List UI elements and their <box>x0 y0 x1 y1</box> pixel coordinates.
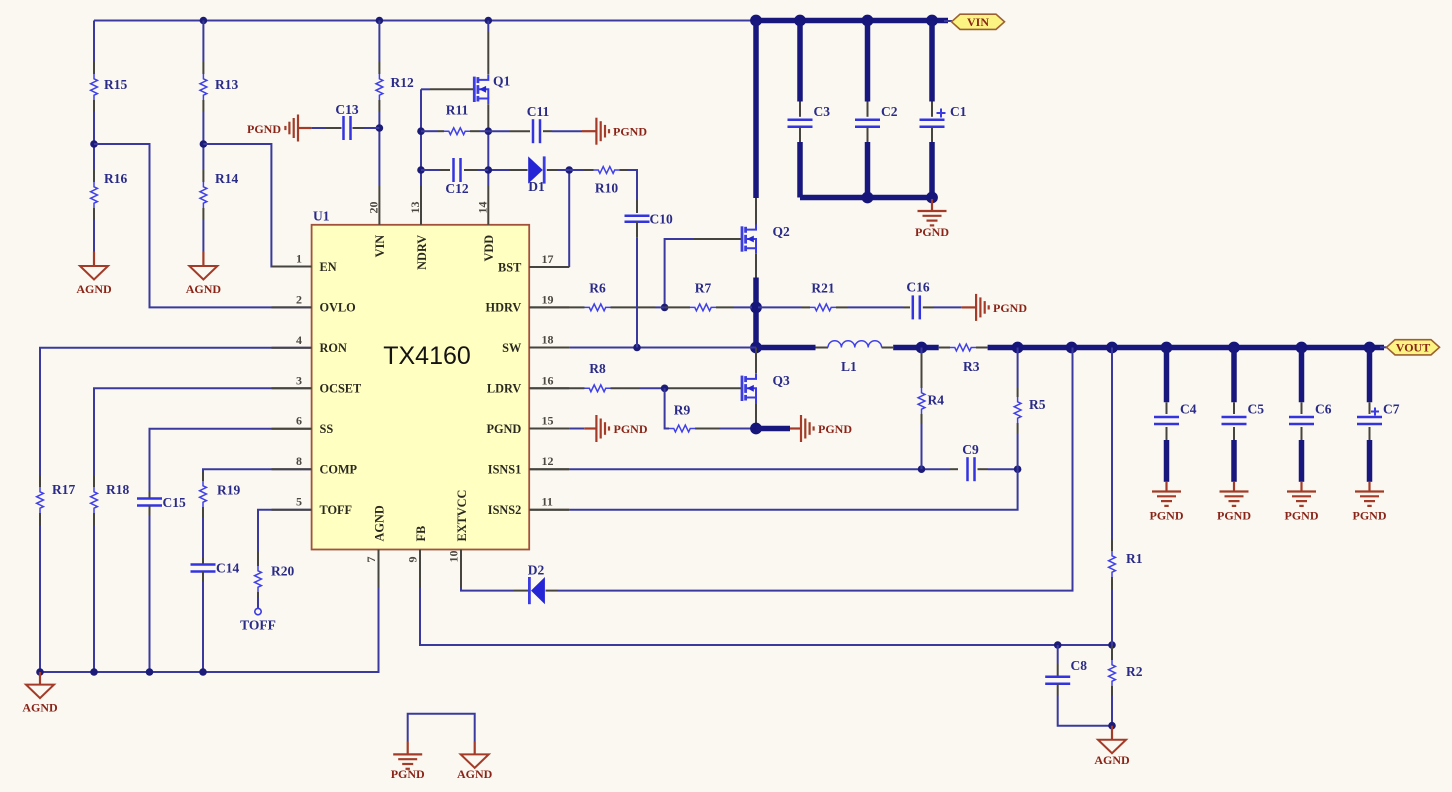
svg-text:R4: R4 <box>928 393 945 408</box>
svg-text:R11: R11 <box>446 103 469 118</box>
wire: LDRV line pin 16 <box>529 387 584 389</box>
wire: ISNS2 line pin 11 <box>529 469 1017 510</box>
svg-text:ISNS1: ISNS1 <box>488 463 522 477</box>
resistor R2 <box>1108 645 1143 730</box>
resistor R15 <box>91 21 128 145</box>
svg-text:7: 7 <box>364 557 378 563</box>
svg-text:R9: R9 <box>674 402 691 417</box>
svg-text:PGND: PGND <box>247 122 281 136</box>
wire: HDRV line pin 19 <box>529 306 584 308</box>
resistor R1 <box>1109 348 1143 646</box>
svg-text:TOFF: TOFF <box>240 618 276 633</box>
pin 1 EN <box>272 252 337 274</box>
svg-text:AGND: AGND <box>76 282 112 296</box>
svg-text:OCSET: OCSET <box>320 382 362 396</box>
svg-text:AGND: AGND <box>22 701 58 715</box>
pin 20 VIN <box>366 185 387 257</box>
capacitor C10 (bootstrap) <box>625 212 673 227</box>
pin 3 OCSET <box>272 373 362 395</box>
svg-text:3: 3 <box>296 373 302 387</box>
terminal TOFF <box>240 608 276 632</box>
wire: R10 to C10 <box>620 170 638 213</box>
pin 18 SW <box>502 333 569 355</box>
svg-text:8: 8 <box>296 454 302 468</box>
svg-text:SW: SW <box>502 341 522 355</box>
svg-text:D2: D2 <box>528 563 545 578</box>
svg-text:D1: D1 <box>528 179 545 194</box>
wire: ISNS1 line pin 12 <box>529 465 958 473</box>
power AGND under R16 <box>76 252 112 297</box>
svg-text:C2: C2 <box>881 104 898 119</box>
wire: OVLO pin 2 net <box>94 144 312 307</box>
svg-text:U1: U1 <box>313 209 330 224</box>
capacitor C1 (polarized) <box>920 21 967 198</box>
wire: PGND-AGND tie <box>408 714 475 742</box>
pin 5 TOFF <box>272 495 353 517</box>
svg-text:BST: BST <box>498 260 522 274</box>
wire: junction to R10 <box>569 169 593 171</box>
wire: C9 to R5 node <box>978 465 1022 473</box>
svg-text:COMP: COMP <box>320 463 358 477</box>
wire: OCSET pin 3 net <box>94 388 312 475</box>
resistor R16 <box>90 140 127 251</box>
wire: Q1 source to VDD node <box>487 104 489 131</box>
pin 4 RON <box>272 333 347 355</box>
wire: R9 to Q3 source <box>695 428 752 430</box>
transistor Q1 <box>474 74 510 105</box>
power PGND right of C11 <box>596 118 647 145</box>
resistor R10 <box>594 167 620 196</box>
capacitor C8 <box>1045 645 1112 726</box>
wire: Q2 gate branch <box>661 239 741 311</box>
power PGND under C7 <box>1353 482 1387 523</box>
pin 10 EXTVCC <box>447 490 469 587</box>
svg-text:R14: R14 <box>215 171 238 186</box>
capacitor C9 <box>962 442 979 481</box>
svg-text:FB: FB <box>414 526 428 542</box>
svg-text:PGND: PGND <box>993 301 1027 315</box>
inductor L1 <box>828 341 882 374</box>
capacitor C15 <box>137 492 186 672</box>
wire: VDD node to D1 <box>488 169 527 171</box>
svg-text:12: 12 <box>542 454 554 468</box>
svg-text:R18: R18 <box>106 482 129 497</box>
wire: RON pin 4 net <box>40 348 312 475</box>
svg-text:R8: R8 <box>589 361 606 376</box>
svg-text:R20: R20 <box>271 564 294 579</box>
svg-text:1: 1 <box>296 252 302 266</box>
wire: C16 to PGND <box>923 306 976 308</box>
power PGND at tie <box>391 742 425 782</box>
svg-text:C7: C7 <box>1383 402 1400 417</box>
capacitor C5 <box>1222 348 1265 482</box>
wire: L1 to R3 (thick) <box>882 342 950 354</box>
wire: EXTVCC pin 10 to D2 <box>461 550 528 591</box>
pin 13 NDRV <box>408 185 429 270</box>
wire: Q2 source to SW (thick) <box>750 254 762 354</box>
resistor R3 <box>950 344 980 374</box>
wire: snubber branch from SW node <box>758 306 810 308</box>
svg-text:R6: R6 <box>589 280 606 295</box>
power PGND under C5 <box>1217 482 1251 523</box>
svg-text:R7: R7 <box>695 280 712 295</box>
wire: SW node to L1 (thick) <box>756 345 828 351</box>
svg-text:C6: C6 <box>1315 402 1332 417</box>
wire: D2 to VOUT rail <box>546 348 1073 591</box>
resistor R8 <box>585 361 611 391</box>
wire: R21 to C16 <box>836 306 910 308</box>
svg-text:PGND: PGND <box>486 422 521 436</box>
wire: AGND rail <box>36 550 378 676</box>
wire: gate-source branch down <box>665 388 669 428</box>
capacitor C6 <box>1289 348 1332 482</box>
resistor R18 <box>91 475 130 672</box>
wire: SW line pin 18 <box>529 344 756 352</box>
wire: Q1 drain to VIN bus <box>487 21 489 75</box>
svg-text:HDRV: HDRV <box>486 301 522 315</box>
svg-text:R2: R2 <box>1126 664 1143 679</box>
svg-text:C9: C9 <box>962 442 979 457</box>
power flag VIN <box>952 14 1005 29</box>
svg-text:19: 19 <box>542 292 554 306</box>
svg-text:Q3: Q3 <box>773 373 791 388</box>
svg-text:C4: C4 <box>1180 402 1197 417</box>
diode D2 <box>528 563 545 605</box>
svg-text:C5: C5 <box>1248 402 1265 417</box>
wire: PGND pin 15 <box>529 428 596 430</box>
resistor R13 <box>200 21 238 145</box>
resistor R11 <box>421 103 488 135</box>
power PGND under C4 <box>1150 482 1184 523</box>
pin 11 ISNS2 <box>488 495 569 517</box>
wire: Q3 source node (thick) <box>750 403 801 434</box>
capacitor C13 <box>298 102 379 140</box>
pin 8 COMP <box>272 454 358 476</box>
pin 9 FB <box>406 526 428 587</box>
svg-text:PGND: PGND <box>613 125 647 139</box>
svg-text:R3: R3 <box>963 359 980 374</box>
wire: FB pin 9 net <box>420 550 1116 649</box>
svg-text:R15: R15 <box>104 77 127 92</box>
resistor R20 <box>255 552 295 608</box>
wire: NDRV column pin 13 <box>417 89 425 185</box>
svg-text:C13: C13 <box>335 102 358 117</box>
svg-text:Q1: Q1 <box>493 74 511 89</box>
svg-text:5: 5 <box>296 495 302 509</box>
svg-text:PGND: PGND <box>1285 509 1319 523</box>
svg-text:17: 17 <box>542 252 554 266</box>
wire: TOFF pin 5 net <box>258 510 312 552</box>
capacitor C2 <box>855 21 898 198</box>
svg-text:C12: C12 <box>445 181 468 196</box>
svg-text:OVLO: OVLO <box>320 301 356 315</box>
svg-text:C8: C8 <box>1071 658 1088 673</box>
pin 15 PGND <box>486 414 569 436</box>
svg-text:9: 9 <box>406 557 420 563</box>
svg-text:R12: R12 <box>391 75 414 90</box>
capacitor C16 <box>906 280 929 320</box>
wire: Q3 drain to SW <box>755 348 757 374</box>
svg-text:VOUT: VOUT <box>1396 341 1430 355</box>
wire: input cap ground bus (thick) <box>800 192 938 204</box>
svg-text:C14: C14 <box>216 561 239 576</box>
resistor R21 <box>810 280 836 311</box>
resistor R9 <box>669 402 695 432</box>
power PGND under C6 <box>1285 482 1319 523</box>
svg-text:4: 4 <box>296 333 302 347</box>
resistor R17 <box>37 475 76 672</box>
svg-text:RON: RON <box>320 341 347 355</box>
svg-text:R17: R17 <box>52 482 75 497</box>
svg-text:2: 2 <box>296 292 302 306</box>
resistor R7 <box>690 280 716 311</box>
resistor R12 <box>376 21 414 186</box>
power AGND under R2 <box>1094 726 1130 767</box>
capacitor C14 <box>191 558 240 672</box>
svg-text:AGND: AGND <box>372 505 386 541</box>
svg-text:C11: C11 <box>527 104 550 119</box>
power AGND at tie <box>457 742 493 782</box>
pin 17 BST <box>498 252 569 274</box>
svg-text:20: 20 <box>366 202 380 214</box>
wire: SS pin 6 net <box>150 429 312 492</box>
pin 19 HDRV <box>486 292 570 314</box>
pin 6 SS <box>272 414 334 436</box>
svg-text:PGND: PGND <box>1150 509 1184 523</box>
svg-text:TOFF: TOFF <box>320 503 353 517</box>
capacitor C7 (polarized) <box>1357 348 1400 482</box>
svg-text:C15: C15 <box>163 495 186 510</box>
capacitor C3 <box>788 21 831 198</box>
svg-text:PGND: PGND <box>1217 509 1251 523</box>
svg-text:PGND: PGND <box>614 422 648 436</box>
power PGND right of C16 <box>976 294 1027 321</box>
power AGND at rail <box>22 672 58 715</box>
svg-text:C3: C3 <box>814 104 831 119</box>
diode D1 <box>528 156 545 194</box>
wire: COMP pin 8 net <box>203 469 312 471</box>
svg-text:SS: SS <box>320 422 334 436</box>
svg-text:R10: R10 <box>595 181 618 196</box>
power PGND under C1 <box>915 199 949 239</box>
svg-text:R16: R16 <box>104 171 127 186</box>
wire: R7 to Q2 node <box>716 306 752 308</box>
resistor R14 <box>200 140 239 251</box>
resistor R6 <box>585 280 611 311</box>
svg-text:16: 16 <box>542 373 554 387</box>
svg-text:TX4160: TX4160 <box>383 342 471 370</box>
capacitor C12 <box>421 158 488 196</box>
svg-text:VIN: VIN <box>373 235 387 258</box>
wire: VIN thick bus <box>750 15 952 27</box>
svg-text:LDRV: LDRV <box>487 382 522 396</box>
svg-text:C16: C16 <box>906 280 929 295</box>
wire: VOUT rail (thick) <box>976 342 1387 354</box>
resistor R5 <box>1014 348 1046 470</box>
wire: C10 to SW line <box>636 222 638 348</box>
svg-text:PGND: PGND <box>391 767 425 781</box>
pin 7 AGND <box>364 505 386 587</box>
svg-text:C10: C10 <box>650 212 673 227</box>
svg-text:R21: R21 <box>811 280 834 295</box>
capacitor C4 <box>1154 348 1197 482</box>
svg-text:NDRV: NDRV <box>415 235 429 270</box>
capacitor C11 <box>488 104 596 143</box>
svg-text:EXTVCC: EXTVCC <box>455 490 469 542</box>
IC U1 TX4160 body <box>312 209 530 550</box>
svg-text:R19: R19 <box>217 483 240 498</box>
wire: R6 to R7 <box>611 306 691 308</box>
svg-text:ISNS2: ISNS2 <box>488 503 522 517</box>
svg-text:14: 14 <box>475 202 489 214</box>
svg-text:6: 6 <box>296 414 302 428</box>
svg-text:R5: R5 <box>1029 397 1046 412</box>
wire: EN pin 1 net <box>203 144 311 267</box>
pin 16 LDRV <box>487 373 569 395</box>
svg-text:EN: EN <box>320 260 337 274</box>
transistor Q3 <box>742 373 790 403</box>
wire: VIN column to Q2 drain (thick) <box>753 21 759 225</box>
wire: Q1 gate to NDRV column <box>421 88 473 90</box>
power PGND at pin 15 <box>596 415 647 442</box>
svg-text:L1: L1 <box>841 359 857 374</box>
svg-text:PGND: PGND <box>915 225 949 239</box>
svg-text:10: 10 <box>447 551 461 563</box>
svg-text:R1: R1 <box>1126 551 1143 566</box>
svg-text:18: 18 <box>542 333 554 347</box>
svg-text:AGND: AGND <box>1094 753 1130 767</box>
svg-text:15: 15 <box>542 414 554 428</box>
svg-text:VDD: VDD <box>482 235 496 262</box>
svg-text:AGND: AGND <box>457 767 493 781</box>
svg-text:AGND: AGND <box>186 282 222 296</box>
svg-text:11: 11 <box>542 495 553 509</box>
resistor R19 <box>200 471 241 558</box>
power PGND at Q3 source <box>801 415 852 442</box>
svg-text:PGND: PGND <box>818 422 852 436</box>
wire: R8 to Q3 gate <box>611 385 741 393</box>
pin 14 VDD <box>475 185 496 261</box>
power flag VOUT <box>1387 340 1440 355</box>
svg-text:C1: C1 <box>950 104 967 119</box>
wire: BST pin 17 to D1 cathode <box>529 166 573 267</box>
wire: D1 to junction <box>547 169 569 171</box>
svg-text:13: 13 <box>408 202 422 214</box>
svg-text:VIN: VIN <box>967 15 989 29</box>
pin 2 OVLO <box>272 292 356 314</box>
power AGND under R14 <box>186 252 222 297</box>
svg-text:R13: R13 <box>215 77 238 92</box>
wire: VDD column pin 14 <box>485 127 493 185</box>
transistor Q2 <box>742 224 790 254</box>
svg-text:Q2: Q2 <box>773 224 791 239</box>
resistor R4 <box>918 348 944 470</box>
pin 12 ISNS1 <box>488 454 569 476</box>
svg-text:PGND: PGND <box>1353 509 1387 523</box>
wire: top VIN bus (thin) <box>94 17 756 25</box>
power PGND left of C13 <box>247 115 298 142</box>
